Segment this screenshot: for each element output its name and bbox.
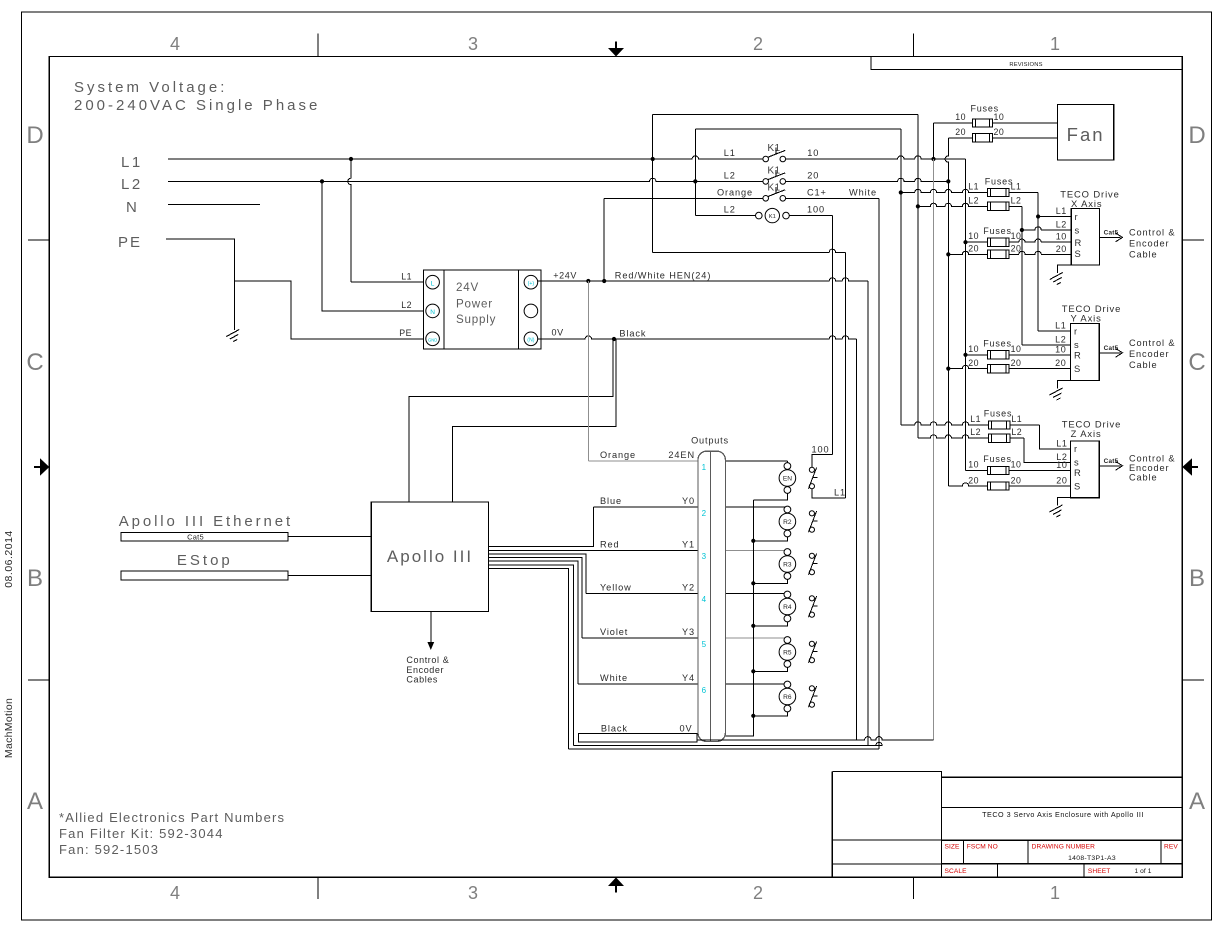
svg-text:5: 5 xyxy=(702,640,707,649)
wire coil to 100 xyxy=(789,215,832,217)
relay coil R2 xyxy=(784,506,791,513)
svg-text:R: R xyxy=(1074,350,1081,361)
svg-text:Encoder: Encoder xyxy=(1129,463,1170,473)
zone tick bottom 2/1 xyxy=(913,877,915,899)
wire fan fuse1 drop xyxy=(933,123,935,159)
wire L1 feed upper loop xyxy=(652,115,654,253)
svg-text:Cable: Cable xyxy=(1129,250,1158,260)
svg-text:Control &: Control & xyxy=(1129,228,1175,238)
wire to relay R3 coil xyxy=(725,549,787,551)
svg-text:B: B xyxy=(27,565,43,592)
svg-text:Control &: Control & xyxy=(1129,454,1175,464)
svg-text:L2: L2 xyxy=(724,170,736,180)
relay contact R2 xyxy=(809,511,814,516)
relay contact R6 xyxy=(809,686,814,691)
wire fan fuse2 drop xyxy=(945,138,948,182)
svg-text:08.06.2014: 08.06.2014 xyxy=(3,530,15,588)
wire Z L1 to r xyxy=(1040,425,1071,449)
wire X L2 to s xyxy=(1021,206,1023,344)
svg-text:*Allied Electronics Part Numbe: *Allied Electronics Part Numbers xyxy=(59,810,285,825)
wire 24EN orange drop xyxy=(587,281,589,461)
centring arrow bottom xyxy=(615,886,617,893)
wire L2 drop to power supply xyxy=(322,181,426,311)
wire Z L2 to s xyxy=(1024,438,1071,462)
wire EN L1 riser xyxy=(844,252,846,498)
svg-text:R3: R3 xyxy=(783,561,792,568)
wire Black drop to bottom bus xyxy=(855,339,857,740)
svg-text:1408-T3P1-A3: 1408-T3P1-A3 xyxy=(1068,855,1116,862)
wire 0V bus bottom xyxy=(697,737,934,740)
zone tick top 4/3 xyxy=(317,34,319,57)
wire EN contact to L1 riser xyxy=(812,489,846,498)
svg-text:R6: R6 xyxy=(783,694,792,701)
svg-text:24V: 24V xyxy=(456,281,479,294)
svg-text:L1: L1 xyxy=(1056,439,1067,449)
svg-text:L2: L2 xyxy=(1055,334,1066,344)
svg-text:24EN: 24EN xyxy=(668,450,695,460)
wire cat5 to apollo xyxy=(288,536,371,538)
svg-text:TECO 3 Servo Axis Enclosure wi: TECO 3 Servo Axis Enclosure with Apollo … xyxy=(982,810,1144,819)
wire EN coil return xyxy=(753,493,787,500)
svg-text:Black: Black xyxy=(601,723,628,733)
svg-text:Encoder: Encoder xyxy=(1129,349,1170,359)
wire +24V to Apollo xyxy=(452,339,616,502)
svg-text:K1: K1 xyxy=(767,182,780,193)
wire row Y2 yellow xyxy=(586,593,698,595)
centring arrow right xyxy=(1192,466,1199,468)
relay contact R3 xyxy=(809,553,814,558)
wire R6 coil return xyxy=(753,712,787,716)
svg-text:r: r xyxy=(1074,326,1077,337)
svg-text:Orange: Orange xyxy=(717,187,753,197)
svg-text:+24V: +24V xyxy=(553,271,577,281)
svg-text:20: 20 xyxy=(1056,244,1067,254)
svg-text:R4: R4 xyxy=(783,604,792,611)
svg-text:L2: L2 xyxy=(970,427,981,437)
svg-text:10: 10 xyxy=(968,344,979,354)
svg-text:Fan: 592-1503: Fan: 592-1503 xyxy=(59,842,159,857)
svg-text:1: 1 xyxy=(1050,883,1060,903)
svg-text:1: 1 xyxy=(1050,34,1060,54)
svg-text:K1: K1 xyxy=(767,165,780,176)
svg-text:L2: L2 xyxy=(1011,427,1022,437)
svg-text:White: White xyxy=(849,187,877,197)
svg-text:s: s xyxy=(1075,225,1080,236)
apollo III controller xyxy=(371,502,488,611)
svg-text:4: 4 xyxy=(170,883,180,903)
svg-text:Outputs: Outputs xyxy=(691,436,729,446)
svg-text:20: 20 xyxy=(1055,358,1066,368)
wire relay feed lower xyxy=(653,249,846,252)
svg-text:D: D xyxy=(1188,122,1205,149)
svg-text:10: 10 xyxy=(1056,460,1067,470)
svg-text:1: 1 xyxy=(702,463,707,472)
svg-text:s: s xyxy=(1074,339,1079,350)
svg-text:200-240VAC Single Phase: 200-240VAC Single Phase xyxy=(74,97,320,114)
wire L2 left segment xyxy=(168,178,763,181)
svg-text:4: 4 xyxy=(702,595,707,604)
svg-text:10: 10 xyxy=(807,148,819,158)
apollo output wires fan-out xyxy=(489,507,594,546)
outputs connector J1 xyxy=(698,451,725,741)
wire to relay R4 coil xyxy=(725,593,787,595)
svg-text:20: 20 xyxy=(994,127,1005,137)
svg-text:Y2: Y2 xyxy=(682,583,695,593)
relay coil EN xyxy=(784,463,791,470)
zone tick left B/A xyxy=(28,679,49,681)
svg-text:3: 3 xyxy=(468,34,478,54)
svg-text:PE: PE xyxy=(399,328,412,338)
relay contact R5 xyxy=(809,641,814,646)
wire to relay R5 coil xyxy=(725,637,787,639)
svg-text:6: 6 xyxy=(702,686,707,695)
zone tick top 2/1 xyxy=(913,34,915,57)
svg-text:Fuses: Fuses xyxy=(983,226,1012,236)
svg-text:Control &: Control & xyxy=(406,655,449,665)
wire PE ground branch xyxy=(233,281,235,330)
svg-text:L1: L1 xyxy=(968,182,979,192)
wire 100 to EN contact xyxy=(812,455,833,468)
svg-text:Apollo III: Apollo III xyxy=(387,547,473,566)
wire 0V to Apollo xyxy=(409,339,613,502)
svg-text:White: White xyxy=(600,673,628,683)
svg-text:R5: R5 xyxy=(783,649,792,656)
svg-text:Y0: Y0 xyxy=(682,496,695,506)
revisions box xyxy=(871,57,1182,70)
svg-text:REV: REV xyxy=(1164,844,1178,851)
fan M1 xyxy=(1058,105,1114,160)
wire 10 output xyxy=(786,156,966,159)
svg-text:Black: Black xyxy=(619,329,646,339)
svg-text:20: 20 xyxy=(1011,358,1022,368)
wire C1+ white output xyxy=(786,197,879,199)
svg-text:20: 20 xyxy=(1056,476,1067,486)
svg-text:Supply: Supply xyxy=(456,313,496,326)
relay coil R4 xyxy=(784,591,791,598)
svg-text:A: A xyxy=(27,788,43,815)
svg-text:System Voltage:: System Voltage: xyxy=(74,79,227,96)
svg-text:K1: K1 xyxy=(769,214,776,220)
relay coil R6 xyxy=(784,681,791,688)
relay coil R5 xyxy=(784,637,791,644)
relay contact EN xyxy=(809,467,814,472)
wire Y s feed xyxy=(1022,344,1071,346)
svg-text:2: 2 xyxy=(753,34,763,54)
svg-text:s: s xyxy=(1074,457,1079,468)
svg-text:Yellow: Yellow xyxy=(600,583,632,593)
wire L2 feed upper loop xyxy=(694,129,696,216)
wire 0V / Black xyxy=(538,336,857,339)
svg-text:Fan Filter Kit: 592-3044: Fan Filter Kit: 592-3044 xyxy=(59,826,224,841)
zone tick right D/C xyxy=(1182,239,1204,241)
wire row Y1 red xyxy=(489,549,698,551)
svg-text:Y3: Y3 xyxy=(682,627,695,637)
svg-text:SCALE: SCALE xyxy=(945,868,968,875)
svg-text:Cable: Cable xyxy=(1129,360,1158,370)
svg-text:SIZE: SIZE xyxy=(945,844,961,851)
svg-text:0V: 0V xyxy=(680,723,693,733)
svg-text:r: r xyxy=(1074,443,1077,454)
svg-text:N: N xyxy=(430,309,435,316)
svg-text:S: S xyxy=(1074,481,1080,492)
wire Orange +24V riser to K1 xyxy=(603,198,605,281)
svg-text:3: 3 xyxy=(468,883,478,903)
svg-text:C1+: C1+ xyxy=(807,187,827,197)
coil common return vertical xyxy=(725,500,753,736)
svg-text:Red/White HEN(24): Red/White HEN(24) xyxy=(615,271,711,281)
svg-text:Fuses: Fuses xyxy=(983,454,1012,464)
svg-text:Fuses: Fuses xyxy=(983,339,1012,349)
svg-text:Cat5: Cat5 xyxy=(187,532,204,541)
svg-text:10: 10 xyxy=(994,112,1005,122)
svg-text:Control &: Control & xyxy=(1129,338,1175,348)
relay coil R3 xyxy=(784,549,791,556)
svg-text:Fuses: Fuses xyxy=(984,409,1013,419)
bus 10 common drop (grey) xyxy=(933,159,935,740)
svg-text:(+): (+) xyxy=(528,281,535,287)
svg-text:Fuses: Fuses xyxy=(985,176,1014,186)
svg-text:20: 20 xyxy=(955,127,966,137)
svg-text:Z Axis: Z Axis xyxy=(1071,428,1102,439)
svg-text:20: 20 xyxy=(1011,476,1022,486)
svg-text:L1: L1 xyxy=(1011,182,1022,192)
svg-text:L1: L1 xyxy=(724,148,736,158)
ground X drive xyxy=(1058,265,1072,273)
zone tick bottom 4/3 xyxy=(317,877,319,899)
wire row Y0 blue xyxy=(594,506,698,508)
svg-text:(N): (N) xyxy=(527,338,534,344)
centring arrow top xyxy=(615,42,617,49)
wire R4 coil return xyxy=(753,622,787,626)
wire Y r feed xyxy=(1038,330,1071,332)
wire C1+ bus bottom xyxy=(569,748,879,750)
wire row Y3 violet xyxy=(582,637,698,639)
svg-text:L1: L1 xyxy=(401,272,412,282)
svg-text:K1: K1 xyxy=(767,143,780,154)
bus 20 switched drop xyxy=(947,181,949,486)
wire 20 output xyxy=(786,178,949,181)
svg-text:R: R xyxy=(1074,467,1081,478)
wire X L1 to r xyxy=(1037,193,1039,332)
zone tick left D/C xyxy=(28,239,49,241)
wire HEN bus bottom xyxy=(573,742,882,745)
title block xyxy=(831,772,833,878)
svg-text:L2: L2 xyxy=(1011,195,1022,205)
relay contact R4 xyxy=(809,596,814,601)
cat5 cable bar xyxy=(121,532,288,541)
svg-text:20: 20 xyxy=(807,170,819,180)
svg-text:L1: L1 xyxy=(1056,206,1067,216)
svg-text:100: 100 xyxy=(811,445,829,455)
wire L1 drop to power supply xyxy=(348,159,351,282)
svg-text:Encoder: Encoder xyxy=(1129,239,1170,249)
wire N stub xyxy=(168,204,260,206)
svg-text:10: 10 xyxy=(1056,232,1067,242)
wire row Y4 white xyxy=(578,683,698,685)
ground Z drive xyxy=(1057,498,1070,506)
svg-text:Y Axis: Y Axis xyxy=(1070,313,1101,324)
centring arrow left xyxy=(34,466,41,468)
svg-text:L: L xyxy=(431,280,435,287)
svg-text:100: 100 xyxy=(807,205,825,215)
zone tick right B/A xyxy=(1182,679,1204,681)
svg-text:L2: L2 xyxy=(121,176,143,193)
wire L1 left segment xyxy=(168,156,763,159)
svg-text:EStop: EStop xyxy=(177,552,233,569)
svg-text:10: 10 xyxy=(1055,344,1066,354)
svg-text:10: 10 xyxy=(955,112,966,122)
svg-text:20: 20 xyxy=(968,476,979,486)
ground Y drive xyxy=(1058,381,1071,389)
svg-text:C: C xyxy=(1188,349,1205,376)
wire estop to apollo xyxy=(288,575,371,577)
wire to relay R6 coil xyxy=(725,683,787,685)
svg-text:10: 10 xyxy=(968,460,979,470)
wire to relay R2 coil xyxy=(725,506,787,508)
svg-text:L1: L1 xyxy=(834,488,846,498)
svg-text:L2: L2 xyxy=(401,300,412,310)
svg-text:FSCM NO: FSCM NO xyxy=(967,844,998,851)
junction L2 to K1 coil xyxy=(693,179,697,183)
svg-text:2: 2 xyxy=(753,883,763,903)
svg-text:Cable: Cable xyxy=(1129,473,1158,483)
svg-text:3: 3 xyxy=(702,552,707,561)
wire R5 coil return xyxy=(753,667,787,671)
svg-text:C: C xyxy=(26,349,43,376)
svg-text:Violet: Violet xyxy=(600,627,628,637)
svg-text:20: 20 xyxy=(968,358,979,368)
junction L1 to relay feed xyxy=(651,157,655,161)
svg-text:GND: GND xyxy=(428,337,437,342)
svg-text:DRAWING NUMBER: DRAWING NUMBER xyxy=(1032,844,1096,851)
wire orange into K1 xyxy=(604,197,763,199)
svg-text:Y4: Y4 xyxy=(682,673,695,683)
apollo encoder arrow xyxy=(430,612,432,643)
bus L2 unswitched drop xyxy=(900,129,902,425)
svg-text:2: 2 xyxy=(702,509,707,518)
svg-text:Apollo III Ethernet: Apollo III Ethernet xyxy=(119,513,293,530)
svg-text:Encoder: Encoder xyxy=(406,665,444,675)
svg-text:D: D xyxy=(26,122,43,149)
svg-text:10: 10 xyxy=(1011,344,1022,354)
svg-text:A: A xyxy=(1189,788,1205,815)
bus 10 switched drop xyxy=(965,159,967,471)
wire +24V / Red-White HEN(24) xyxy=(538,278,868,281)
wire R3 coil return xyxy=(753,579,787,583)
power supply U1 24V xyxy=(424,270,541,349)
wire Red/White drop to bottom bus xyxy=(867,281,869,746)
svg-text:L2: L2 xyxy=(968,195,979,205)
svg-text:r: r xyxy=(1075,211,1078,222)
svg-text:4: 4 xyxy=(170,34,180,54)
svg-text:REVISIONS: REVISIONS xyxy=(1009,62,1042,68)
svg-text:1 of 1: 1 of 1 xyxy=(1134,868,1151,875)
svg-text:Fan: Fan xyxy=(1067,124,1105,145)
ground symbol PE xyxy=(226,330,239,342)
svg-text:Red: Red xyxy=(600,539,620,549)
svg-text:Power: Power xyxy=(456,298,493,311)
svg-text:N: N xyxy=(126,199,139,216)
svg-text:10: 10 xyxy=(968,231,979,241)
wire to relay EN coil xyxy=(725,460,787,462)
svg-text:Cables: Cables xyxy=(406,675,438,685)
svg-text:PE: PE xyxy=(118,234,142,251)
bus L1 unswitched drop xyxy=(917,115,919,438)
svg-text:MachMotion: MachMotion xyxy=(3,698,15,758)
svg-text:Blue: Blue xyxy=(600,496,622,506)
wire R2 coil return xyxy=(753,537,787,541)
svg-text:SHEET: SHEET xyxy=(1088,868,1110,875)
svg-text:Orange: Orange xyxy=(600,450,636,460)
svg-text:B: B xyxy=(1189,565,1205,592)
svg-text:EN: EN xyxy=(783,475,792,482)
svg-text:S: S xyxy=(1075,248,1081,259)
svg-text:R2: R2 xyxy=(783,519,792,526)
wire 100 drop xyxy=(831,216,833,455)
svg-text:10: 10 xyxy=(1011,460,1022,470)
wire PE to power supply xyxy=(166,239,426,339)
junction L2 to PS xyxy=(320,179,324,183)
svg-text:L1: L1 xyxy=(1055,321,1066,331)
svg-text:20: 20 xyxy=(968,243,979,253)
estop cable bar xyxy=(121,571,288,580)
svg-text:R: R xyxy=(1075,237,1082,248)
junction L1 to PS xyxy=(349,157,353,161)
svg-text:X Axis: X Axis xyxy=(1071,198,1102,209)
black 0V cable bar xyxy=(579,734,697,742)
svg-text:L1: L1 xyxy=(970,414,981,424)
svg-text:S: S xyxy=(1074,363,1080,374)
svg-text:L1: L1 xyxy=(121,154,143,171)
svg-text:L2: L2 xyxy=(1056,220,1067,230)
svg-text:0V: 0V xyxy=(552,328,564,338)
svg-text:L2: L2 xyxy=(724,205,736,215)
svg-text:L1: L1 xyxy=(1011,414,1022,424)
svg-text:Y1: Y1 xyxy=(682,539,695,549)
